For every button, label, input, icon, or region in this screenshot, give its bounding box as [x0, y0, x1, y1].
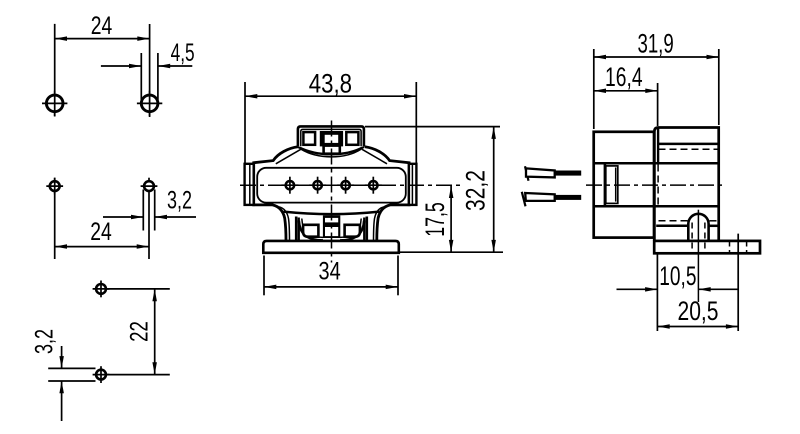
dimension 24 (row 2) [55, 218, 149, 249]
svg-text:10,5: 10,5 [659, 261, 696, 291]
extension line 31,9 right [718, 49, 720, 125]
hole A1 (dia 4.5) [46, 95, 63, 112]
side body front block [594, 132, 654, 238]
extension line 16,4 right [657, 83, 659, 126]
dimension 22 [126, 289, 157, 375]
body outline left [254, 147, 298, 241]
svg-text:20,5: 20,5 [678, 296, 719, 326]
body outline right [365, 147, 409, 241]
svg-text:24: 24 [91, 12, 113, 40]
hole B1 cross ticks [46, 178, 63, 195]
side body back block [654, 128, 718, 241]
dimension 10,5 [617, 261, 739, 292]
slot C2 round end [96, 370, 106, 380]
front view horizontal centerline [240, 184, 464, 186]
svg-text:3,2: 3,2 [31, 329, 59, 354]
left tab [245, 164, 254, 205]
extension line 31,9 left [593, 49, 595, 129]
svg-text:34: 34 [319, 258, 341, 286]
slot B2 cross ticks [141, 185, 158, 187]
centerline hole A1 vertical [54, 24, 56, 117]
front view vertical centerline [331, 121, 333, 263]
bottom wall left [296, 217, 299, 241]
slot B2 centerline [148, 178, 150, 259]
snap dome [688, 214, 708, 241]
base plate [263, 241, 399, 253]
top block inner line [301, 129, 361, 146]
contact hole P2 ticks [309, 177, 326, 194]
bottom bowl left [299, 219, 323, 241]
slot A2 centerline vertical [149, 24, 151, 117]
extension line slot C2 [107, 374, 170, 376]
slot B2 round end [144, 181, 154, 191]
side view centerline [586, 184, 723, 186]
mounting flange [654, 241, 760, 253]
dimension 3,2 (row 2) [103, 187, 196, 220]
wire lead upper [525, 166, 581, 181]
dimension 32,2 [461, 127, 496, 253]
top lamella window right [346, 132, 358, 145]
slot A2 edges (width 4.5) [141, 53, 158, 100]
extension line hole B1 [54, 178, 56, 259]
snap dome centerline [697, 210, 699, 302]
flange step line [656, 225, 719, 228]
back collar hidden line [659, 148, 718, 150]
bottom pocket right [345, 225, 360, 237]
dimension 3,2 (row 3) [31, 329, 64, 421]
dimension 17,5 [420, 186, 454, 253]
flange hidden line [659, 220, 718, 222]
contact hole P3 [341, 181, 349, 189]
terminal recess [605, 164, 618, 206]
flange slot hidden edges [730, 242, 747, 253]
hole C1 (dia 3.2) [96, 284, 106, 294]
hole B1 (dia 3.2) [50, 181, 60, 191]
dimension 16,4 [594, 62, 658, 93]
slot B2 edges (width 3.2) [143, 190, 154, 231]
dimension 34 [264, 258, 398, 289]
contact hole P4 ticks [365, 177, 382, 194]
bottom pocket left [303, 225, 318, 237]
bottom rim line [284, 212, 380, 215]
slot C2 edges (width 3.2) [48, 368, 95, 381]
svg-text:31,9: 31,9 [637, 28, 673, 58]
bottom wall right [364, 217, 367, 241]
dimension 31,9 [594, 28, 719, 59]
contact hole P2 [313, 181, 321, 189]
slot A2 round end [141, 95, 158, 112]
svg-text:24: 24 [90, 218, 112, 246]
svg-text:43,8: 43,8 [309, 68, 352, 98]
svg-text:3,2: 3,2 [167, 187, 192, 215]
extension lines 43,8 [245, 82, 416, 163]
svg-text:17,5: 17,5 [420, 202, 450, 237]
side body shoulder line top [594, 162, 719, 165]
back collar line [658, 143, 719, 146]
extension line 32,2 bottom [400, 251, 503, 253]
back block hidden edge [657, 165, 659, 206]
extension line hole C1 [107, 288, 170, 290]
lamp opening [257, 168, 406, 203]
hole A1 cross ticks [42, 91, 67, 116]
svg-text:4,5: 4,5 [171, 39, 195, 67]
dimension 24 (top) [55, 12, 150, 41]
contact hole P3 ticks [337, 177, 354, 194]
left block bottom joint [653, 238, 656, 241]
right tab [409, 164, 417, 205]
top block outline [298, 126, 364, 146]
top chamfer inner lines [276, 149, 387, 164]
dimension 20,5 [657, 296, 738, 329]
dimension 43,8 [245, 68, 416, 98]
svg-text:32,2: 32,2 [461, 170, 491, 211]
contact hole P1 [286, 181, 294, 189]
contact hole P4 [369, 181, 377, 189]
svg-text:22: 22 [126, 321, 154, 342]
dimension 4,5 [101, 39, 195, 68]
contact hole P1 ticks [281, 177, 298, 194]
extension lines 34 [264, 256, 398, 296]
top lamella window left [303, 132, 315, 145]
wire lead lower [522, 192, 581, 207]
extension line 20,5 right [737, 234, 739, 331]
top inner hammock curve [298, 147, 364, 157]
side body shoulder line bottom [594, 205, 719, 208]
top latch lower square [324, 146, 340, 154]
snap dome hidden edges [692, 223, 705, 254]
extension line 32,2 top [365, 126, 500, 128]
slot C2 cross ticks [93, 366, 110, 383]
back block edge line [657, 128, 659, 164]
top latch frame [320, 131, 343, 146]
bottom chamfer inner lines [279, 207, 384, 241]
bottom latch frame [323, 215, 340, 238]
extension line 10,5 left [656, 254, 658, 331]
bottom bowl right [340, 219, 364, 241]
slot A2 cross ticks [137, 91, 162, 116]
hole C1 cross ticks [93, 281, 110, 298]
svg-text:16,4: 16,4 [605, 62, 643, 92]
